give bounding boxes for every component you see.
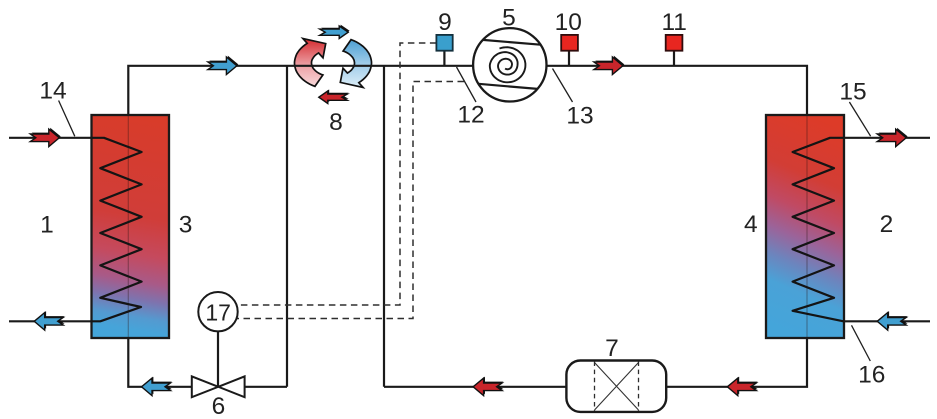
svg-text:8: 8	[329, 109, 343, 136]
svg-text:2: 2	[880, 211, 894, 238]
svg-text:6: 6	[212, 393, 226, 414]
svg-text:7: 7	[605, 335, 619, 362]
svg-text:4: 4	[744, 211, 758, 238]
svg-text:17: 17	[205, 300, 231, 326]
svg-text:11: 11	[661, 9, 686, 36]
svg-text:14: 14	[39, 78, 66, 105]
svg-text:10: 10	[555, 9, 582, 36]
svg-text:16: 16	[858, 362, 885, 389]
svg-text:9: 9	[438, 9, 452, 36]
svg-text:15: 15	[839, 79, 866, 106]
svg-text:12: 12	[457, 102, 484, 129]
svg-text:3: 3	[179, 211, 193, 238]
svg-text:1: 1	[40, 211, 54, 238]
svg-text:13: 13	[566, 103, 593, 130]
svg-text:5: 5	[502, 4, 516, 31]
